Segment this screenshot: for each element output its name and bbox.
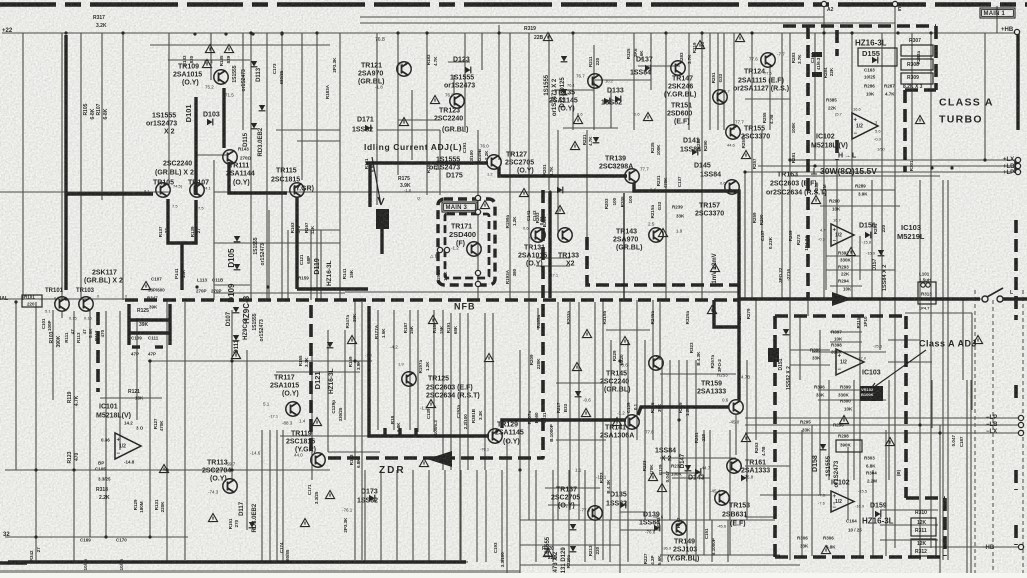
wire [814, 33, 816, 160]
wire [122, 33, 124, 300]
bold dashed board/feedback wire [934, 26, 938, 90]
bold signal trace wire [383, 428, 386, 436]
board label box MAIN 1 [980, 8, 1015, 18]
wire [150, 44, 330, 46]
wire [638, 65, 680, 67]
wire [556, 439, 606, 441]
wire [568, 470, 570, 562]
wire [594, 302, 596, 560]
wire [396, 470, 398, 562]
warning triangle symbol [648, 473, 657, 481]
bold signal trace wire [222, 88, 225, 148]
wire [73, 311, 75, 562]
resistor box [836, 440, 862, 452]
junction [34, 535, 37, 538]
transistor TR143 [649, 228, 663, 242]
wire [620, 529, 660, 531]
wire [660, 457, 736, 459]
diode [233, 307, 240, 313]
transistor TR127 [487, 155, 501, 169]
warning triangle symbol [570, 142, 579, 150]
wire [709, 33, 711, 130]
bold dashed board/feedback wire [905, 88, 936, 92]
junction [64, 297, 67, 300]
transistor TR149 [672, 521, 686, 535]
wire [789, 33, 791, 560]
wire [520, 564, 800, 566]
warning triangle symbol [846, 248, 855, 256]
wire [269, 430, 271, 562]
junction [918, 423, 921, 426]
warning triangle symbol [735, 34, 744, 42]
junction [788, 297, 791, 300]
warning triangle symbol [159, 465, 168, 473]
wire [535, 470, 537, 562]
wire [851, 33, 853, 300]
transistor TR141 [625, 415, 639, 429]
wire [545, 487, 600, 489]
warning triangle symbol [710, 264, 719, 272]
wire [297, 140, 340, 142]
wire [345, 291, 738, 293]
diode [233, 335, 240, 341]
transistor TR107 [190, 183, 204, 197]
warning triangle symbol [347, 336, 356, 344]
bold signal trace wire [1016, 33, 1019, 130]
wire [828, 380, 830, 480]
wire [448, 61, 470, 63]
junction [280, 31, 283, 34]
diode [561, 89, 568, 95]
resistor box [22, 295, 42, 307]
wire [536, 257, 570, 259]
warning triangle symbol [658, 229, 667, 237]
bold signal trace wire [414, 428, 417, 436]
bold dashed board/feedback wire [906, 496, 945, 500]
wire [328, 451, 380, 453]
board separator dashed wire [1022, 290, 1024, 573]
warning triangle symbol [741, 434, 750, 442]
warning triangle symbol [555, 206, 564, 214]
wire [398, 119, 440, 121]
junction [618, 359, 621, 362]
bold signal trace wire [297, 287, 368, 290]
wire [426, 33, 428, 195]
diode [234, 264, 241, 270]
wire [745, 417, 1020, 419]
wire [301, 33, 303, 180]
warning triangle symbol [426, 400, 435, 408]
wire [380, 470, 382, 562]
op-amp IC103b [836, 349, 864, 375]
wire [276, 129, 340, 131]
wire [942, 180, 944, 560]
warning triangle symbol [811, 196, 820, 204]
wire [799, 316, 801, 380]
wire [853, 380, 855, 480]
wire [316, 33, 318, 300]
terminal [1014, 29, 1019, 34]
bold signal trace wire [229, 162, 287, 193]
junction [353, 359, 356, 362]
wire [888, 380, 890, 480]
wire [520, 544, 620, 546]
wire [745, 516, 775, 518]
wire [830, 331, 862, 333]
transistor TR139 [625, 169, 639, 183]
wire [548, 33, 550, 190]
wire [320, 230, 322, 300]
wire [880, 509, 938, 511]
junction [737, 325, 740, 328]
wire [633, 33, 635, 130]
wire [377, 129, 440, 131]
diode [369, 495, 375, 502]
wire [364, 470, 366, 562]
junction [930, 166, 933, 169]
wire [311, 350, 313, 480]
wire [781, 33, 783, 300]
wire [377, 310, 379, 430]
transistor TR105 [156, 183, 170, 197]
diode [741, 475, 747, 482]
wire [417, 310, 419, 432]
wire [80, 33, 82, 300]
junction [541, 456, 544, 459]
transistor TR157 [725, 180, 739, 194]
transistor TR151 [713, 90, 727, 104]
wire [563, 127, 618, 129]
wire [755, 300, 757, 440]
wire [665, 33, 667, 300]
wire [0, 570, 520, 572]
wire [686, 360, 688, 555]
diode [365, 125, 371, 132]
wire [733, 33, 735, 130]
wire [760, 494, 830, 496]
wire [586, 130, 588, 237]
terminal [475, 281, 480, 286]
junction [104, 535, 107, 538]
junction [64, 192, 67, 195]
warning triangle symbol [695, 41, 704, 49]
wire [744, 172, 746, 300]
wire [360, 16, 824, 18]
transistor TR125 [402, 372, 416, 386]
bold dashed board/feedback wire [1014, 220, 1018, 320]
wire [996, 6, 998, 33]
junction [251, 32, 254, 35]
terminal [1015, 169, 1020, 174]
wire [606, 329, 650, 331]
wire [820, 205, 900, 207]
warning triangle symbol [915, 116, 924, 124]
wire [261, 430, 263, 562]
diode [875, 511, 881, 518]
wire [717, 33, 719, 130]
wire [962, 300, 964, 380]
transistor TR137 [588, 506, 602, 520]
wire [168, 59, 250, 61]
wire [100, 397, 162, 399]
wire [556, 89, 594, 91]
op-amp IC102a [852, 113, 878, 139]
warning triangle symbol [399, 118, 408, 126]
transistor TR171 [467, 242, 481, 256]
wire [266, 33, 268, 300]
wire [908, 32, 1017, 34]
wire [830, 285, 862, 287]
bold dashed board/feedback wire [773, 316, 777, 557]
terminal [1018, 422, 1023, 427]
diode [645, 65, 651, 72]
wire [467, 313, 469, 470]
wire [751, 33, 753, 300]
diode [249, 522, 256, 528]
wire [826, 269, 895, 271]
wire [442, 310, 444, 470]
warning triangle symbol [208, 514, 217, 522]
junction [148, 359, 151, 362]
warning triangle symbol [141, 282, 150, 290]
wire [519, 350, 521, 573]
wire [411, 90, 413, 160]
junction [788, 158, 791, 161]
diode [654, 525, 660, 532]
warning triangle symbol [205, 45, 214, 53]
resistor box [911, 539, 936, 556]
bold signal trace wire [634, 183, 739, 400]
wire [761, 130, 763, 300]
wire [556, 382, 606, 384]
diode [327, 342, 334, 348]
diode [593, 137, 600, 143]
wire [520, 519, 775, 521]
wire [888, 339, 920, 341]
wire [790, 175, 940, 177]
diode [251, 61, 258, 67]
wire [709, 430, 711, 520]
junction [396, 31, 399, 34]
bold signal trace wire [368, 163, 371, 207]
wire [231, 310, 233, 480]
op-amp IC102b [831, 491, 854, 512]
wire [872, 470, 874, 556]
wire [723, 33, 725, 130]
terminal [1018, 544, 1023, 549]
bold signal trace wire [366, 161, 488, 164]
wire [397, 33, 399, 175]
wire [880, 524, 938, 526]
junction [425, 31, 428, 34]
bold dashed board/feedback wire [783, 24, 936, 28]
wire [745, 465, 790, 467]
wire [361, 302, 363, 560]
wire [214, 242, 340, 244]
junction [367, 434, 370, 437]
bold signal trace wire [714, 300, 739, 327]
transistor TR129 [488, 429, 502, 443]
wire [15, 302, 17, 470]
warning triangle symbol [741, 151, 750, 159]
wire [727, 520, 729, 562]
diode [872, 57, 878, 64]
wire [688, 33, 690, 130]
warning triangle symbol [573, 116, 582, 124]
wire [376, 33, 378, 205]
wire [678, 360, 680, 520]
junction [983, 158, 986, 161]
resistor box [901, 59, 933, 70]
wire [578, 302, 580, 520]
warning triangle symbol [202, 60, 211, 68]
warning triangle symbol [821, 546, 830, 554]
bold dashed board/feedback wire [903, 90, 907, 172]
diode [575, 391, 582, 397]
diode [251, 123, 258, 129]
wire [826, 189, 895, 191]
wire [101, 33, 103, 200]
wire [492, 313, 494, 440]
wire [444, 470, 446, 562]
transistor TR153 [715, 491, 729, 505]
dashed isolation box around TR171 [438, 199, 495, 285]
diode [620, 502, 626, 509]
diode [685, 465, 692, 471]
wire [610, 340, 612, 520]
bold dashed board/feedback wire [541, 190, 545, 458]
bold dashed board/feedback wire [904, 316, 908, 498]
transistor TR135 [588, 74, 602, 88]
junction [858, 314, 861, 317]
junction [194, 241, 197, 244]
warning triangle symbol [973, 336, 982, 344]
transistor TR145 [649, 356, 663, 370]
transistor TR133 [558, 228, 572, 242]
wire [166, 300, 168, 562]
bold dashed board/feedback wire [943, 498, 947, 556]
wire [498, 25, 500, 160]
wire [105, 311, 107, 537]
bold dashed board/feedback wire [587, 237, 738, 285]
terminal [1018, 415, 1023, 420]
diode [561, 56, 568, 62]
wire [477, 130, 479, 300]
diode [259, 105, 266, 111]
wire [210, 33, 212, 80]
wire [823, 4, 825, 300]
wire [650, 33, 652, 90]
bold signal trace wire [502, 420, 626, 428]
inductor L101 [921, 283, 925, 287]
bold signal trace wire [369, 306, 489, 436]
bold dashed board/feedback wire [1014, 525, 1018, 545]
wire [919, 180, 921, 560]
warning triangle symbol [519, 189, 528, 197]
bold signal trace wire [499, 167, 627, 176]
wire [880, 539, 938, 541]
wire [296, 229, 340, 231]
diode [557, 187, 563, 194]
pointer line Idling Current ADJ [372, 157, 384, 205]
junction [677, 418, 680, 421]
wire [735, 414, 737, 455]
transistor TR147 [671, 61, 685, 75]
warning triangle symbol [707, 306, 716, 314]
wire [250, 33, 252, 300]
bold signal trace wire [129, 318, 170, 321]
wire [790, 364, 830, 366]
wire [920, 546, 1020, 548]
wire [61, 311, 63, 318]
wire [745, 432, 1020, 434]
diode [604, 98, 610, 105]
bold dashed board/feedback wire [328, 456, 543, 460]
diode [207, 119, 213, 126]
junction [822, 31, 825, 34]
wire [627, 340, 629, 560]
bold signal trace wire [66, 192, 153, 195]
transistor TR155 [726, 125, 740, 139]
terminal [1015, 163, 1020, 168]
wire [931, 380, 933, 428]
wire [836, 160, 838, 300]
bold signal trace wire [398, 428, 401, 436]
junction [632, 189, 635, 192]
warning triangle symbol [620, 337, 629, 345]
bias chain wire [623, 193, 625, 299]
capacitor plate [812, 52, 822, 57]
wire [196, 154, 227, 156]
wire [450, 313, 452, 470]
junction [72, 468, 75, 471]
top board border dashed line [0, 2, 1027, 6]
wire [888, 361, 932, 363]
junction [518, 468, 521, 471]
wire [745, 98, 790, 100]
terminal [892, 1, 897, 6]
wire [593, 45, 595, 130]
bold dashed board/feedback wire [125, 298, 738, 302]
wire [859, 236, 861, 280]
diode [820, 444, 827, 450]
arrowhead on ZDR feedback line [427, 451, 452, 467]
junction [750, 31, 753, 34]
bold signal trace wire [155, 345, 163, 348]
wire [669, 360, 671, 520]
wire [745, 424, 1020, 426]
warning triangle symbol [657, 484, 666, 492]
bold signal trace wire [180, 243, 183, 290]
bold signal trace wire [168, 199, 196, 243]
wire [339, 33, 341, 300]
wire [905, 298, 982, 300]
wire [729, 430, 731, 555]
wire [344, 330, 346, 420]
wire [412, 470, 414, 562]
resistor box [901, 45, 933, 56]
bold signal trace wire [132, 345, 140, 348]
resistor box [918, 282, 936, 304]
junction [743, 170, 746, 173]
warning triangle symbol [612, 418, 621, 426]
junction [950, 166, 953, 169]
junction [64, 31, 67, 34]
terminal [821, 1, 826, 6]
wire [509, 33, 511, 300]
bold signal trace wire [738, 297, 980, 300]
wire [610, 90, 612, 128]
